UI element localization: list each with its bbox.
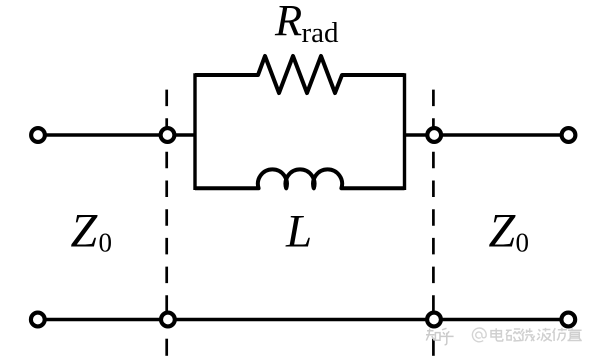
svg-text:R: R	[274, 0, 302, 45]
terminal port top-right	[562, 128, 576, 142]
svg-text:rad: rad	[302, 17, 340, 49]
wire top-right segment	[405, 133, 569, 136]
watermark char zhen	[568, 328, 582, 340]
watermark: zhihu logo char hu	[440, 328, 453, 345]
svg-text:L: L	[285, 206, 312, 258]
wire right side of parallel block	[403, 73, 406, 190]
watermark char fang	[553, 328, 567, 341]
svg-text:Z: Z	[71, 205, 99, 258]
watermark char bo	[537, 328, 552, 341]
dashed reference plane left	[165, 90, 168, 356]
terminal port top-left	[31, 128, 45, 142]
wire top-left segment	[38, 133, 195, 136]
watermark char ci	[506, 329, 523, 341]
terminal port bottom-right	[561, 313, 575, 327]
watermark: zhihu logo char zhi	[426, 328, 454, 345]
wire bottom return line	[38, 318, 569, 321]
watermark char dian	[491, 328, 503, 341]
wire left side of parallel block	[193, 73, 196, 190]
resistor Rrad (zigzag on top branch)	[195, 56, 405, 93]
inductor L (coil on bottom branch)	[195, 169, 405, 188]
node top at right reference plane	[427, 128, 441, 142]
svg-text:Z: Z	[489, 205, 517, 258]
node bottom at right reference plane	[427, 313, 441, 327]
watermark char wei	[521, 328, 535, 341]
node top at left reference plane	[161, 128, 175, 142]
svg-text:0: 0	[516, 227, 530, 257]
svg-text:0: 0	[99, 227, 113, 257]
dashed reference plane right	[432, 90, 435, 356]
terminal port bottom-left	[31, 313, 45, 327]
inductor cusp stems	[284, 179, 288, 188]
node bottom at left reference plane	[161, 313, 175, 327]
watermark @ sign	[472, 328, 486, 342]
